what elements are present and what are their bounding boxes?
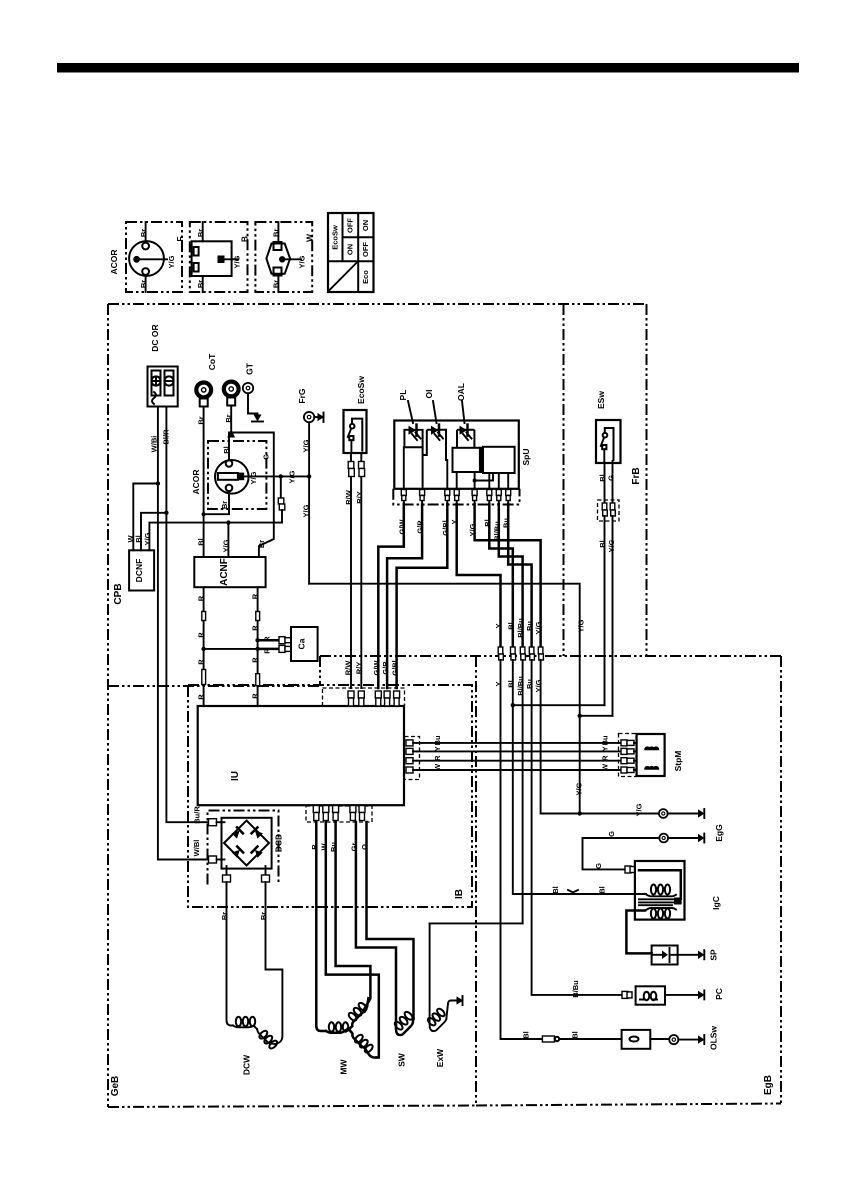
svg-text:Bl: Bl	[598, 886, 607, 894]
wire Bl bundle to ESw junction and IgC	[513, 660, 646, 894]
EcoSw wires R/W R/Y down to IU	[350, 453, 352, 688]
svg-text:Y/G: Y/G	[233, 255, 242, 268]
svg-text:Br: Br	[272, 229, 281, 237]
wire Y/G FrG down to long run	[308, 422, 310, 583]
svg-text:Bl: Bl	[506, 680, 515, 688]
svg-text:Y/G: Y/G	[222, 539, 231, 552]
svg-text:R: R	[251, 657, 260, 663]
svg-text:Bl: Bl	[598, 540, 607, 548]
wire Br bottom F	[145, 275, 147, 292]
GeB/EgB divider	[475, 656, 477, 1106]
svg-text:Y/G: Y/G	[167, 255, 176, 268]
FrB right boundary	[646, 304, 648, 656]
svg-text:R: R	[251, 625, 260, 631]
svg-text:Y/G: Y/G	[575, 782, 584, 795]
svg-text:Br: Br	[220, 912, 229, 920]
svg-text:DCD: DCD	[274, 834, 284, 852]
wire Bu bundle to PC	[532, 660, 622, 995]
wire Y/G from ACOR face to FrG line	[244, 475, 309, 477]
StpM connectors	[621, 740, 634, 773]
svg-text:DCW: DCW	[242, 1054, 252, 1075]
sub winding SW wire Gr	[356, 822, 398, 1035]
wire Bl/Bu bundle down to ExW link	[522, 660, 524, 923]
IgC primary winding	[639, 870, 681, 899]
LED PL	[409, 426, 417, 435]
svg-text:R: R	[251, 693, 260, 699]
SW coil	[398, 1019, 414, 1036]
svg-text:Bl: Bl	[551, 886, 560, 894]
svg-text:OFF: OFF	[346, 218, 355, 233]
ExW coil	[432, 1019, 447, 1031]
svg-text:MW: MW	[339, 1058, 349, 1074]
svg-text:Br: Br	[220, 501, 229, 509]
svg-text:FrB: FrB	[631, 467, 642, 484]
diagonal of blank cell	[329, 262, 357, 290]
indicator unit SpU	[394, 421, 519, 489]
CPB bottom jog	[319, 656, 321, 686]
MW wire Bu	[336, 822, 371, 1009]
svg-text:Bu: Bu	[601, 735, 610, 745]
svg-text:EgG: EgG	[714, 824, 724, 842]
EgB top boundary	[320, 655, 781, 657]
branch Y/G down through connector to DCNF run	[279, 474, 283, 478]
svg-text:Y/G: Y/G	[143, 532, 152, 545]
long Y/G run to engine block	[309, 584, 580, 716]
svg-text:CoT: CoT	[207, 353, 217, 370]
wire Bl/R from DC OR to DCD	[166, 407, 213, 823]
AC receptacle type W box	[255, 222, 312, 292]
EgB bottom boundary	[476, 1104, 781, 1106]
IB inverter block box	[188, 685, 472, 907]
ESw leads Bl and G	[605, 463, 613, 503]
svg-text:OAL: OAL	[456, 383, 466, 401]
DCW coil 2	[257, 1029, 275, 1044]
svg-text:PC: PC	[714, 988, 724, 1000]
svg-text:Br: Br	[259, 912, 268, 920]
wire G/R SpU to IU	[387, 504, 422, 688]
DCNF wire W	[133, 484, 158, 551]
svg-text:Br: Br	[272, 280, 281, 288]
receptacle B face	[192, 241, 232, 276]
svg-text:R: R	[197, 659, 206, 665]
IgC core	[639, 899, 681, 905]
wire Y bundle to OLSw	[501, 660, 544, 1039]
DC winding DCW wire Br	[227, 885, 234, 1026]
svg-text:GT: GT	[245, 362, 255, 375]
receptacle F face circle	[129, 241, 164, 276]
main winding MW wire R	[316, 822, 326, 1031]
wire Br top F	[145, 222, 147, 243]
svg-text:G: G	[607, 831, 616, 837]
svg-text:R: R	[263, 636, 272, 642]
svg-text:OI: OI	[424, 390, 434, 399]
DCNF wire Y/G long run right	[149, 523, 282, 551]
svg-text:Y/G: Y/G	[607, 539, 616, 552]
Bl connector on IgC wire	[568, 890, 578, 893]
DCW coil 1	[233, 1026, 257, 1030]
left outer boundary	[107, 304, 109, 1107]
wire Bl/Bu SpU to bundle	[499, 504, 523, 649]
svg-text:R/W: R/W	[344, 489, 353, 505]
wire R left ACNF to IU	[203, 587, 205, 706]
svg-text:PL: PL	[398, 390, 408, 401]
svg-text:Y/G: Y/G	[302, 439, 311, 452]
wire from ACOR bottom pin to CoT wire	[204, 491, 229, 514]
control terminal 2	[224, 382, 239, 397]
IU bottom connectors	[313, 806, 365, 821]
svg-text:Y: Y	[601, 746, 610, 751]
AC noise filter ACNF	[194, 557, 265, 587]
ACNF mid input Y/G	[227, 523, 229, 557]
MW wire W	[326, 822, 379, 1058]
svg-text:OLSw: OLSw	[709, 1026, 719, 1050]
svg-text:EcoSw: EcoSw	[331, 225, 340, 250]
SpU internal module 2	[483, 447, 515, 473]
svg-text:ACOR: ACOR	[191, 469, 201, 494]
R bus between the two R wires	[204, 648, 258, 650]
IU top connectors	[348, 691, 400, 706]
svg-text:FrG: FrG	[297, 388, 307, 404]
wire Br terminal2 down	[230, 406, 232, 433]
svg-text:Br: Br	[257, 540, 266, 548]
wire Br bottom W	[277, 276, 279, 293]
svg-text:ESw: ESw	[596, 391, 606, 409]
receptacle W face hexagon	[266, 244, 290, 274]
DC rectifier DCD chain box	[208, 811, 279, 885]
svg-text:G: G	[607, 475, 616, 481]
svg-text:R/W: R/W	[344, 660, 353, 676]
DCD input terminals	[209, 819, 217, 826]
svg-text:SW: SW	[397, 1052, 407, 1067]
svg-text:DCNF: DCNF	[134, 559, 144, 583]
ground contact dot and Y/G lead	[133, 256, 140, 263]
svg-text:G/R: G/R	[381, 661, 390, 675]
svg-text:R/Y: R/Y	[355, 662, 364, 675]
svg-text:Bl/R: Bl/R	[162, 429, 171, 445]
spark plug SP lead	[626, 911, 651, 954]
svg-text:Bl: Bl	[506, 622, 515, 630]
svg-text:Br: Br	[196, 229, 205, 237]
GeB bottom boundary	[108, 1106, 476, 1108]
svg-text:Bl: Bl	[522, 1031, 531, 1039]
svg-text:R: R	[197, 632, 206, 638]
svg-text:Bu/R: Bu/R	[193, 806, 202, 824]
svg-text:R: R	[251, 593, 260, 599]
svg-text:OFF: OFF	[361, 242, 370, 257]
svg-text:ON: ON	[361, 220, 370, 231]
svg-text:Bl: Bl	[196, 538, 205, 546]
svg-text:Br: Br	[139, 229, 148, 237]
FrB left boundary	[563, 304, 565, 656]
IU bottom connector chain box	[306, 806, 372, 822]
svg-text:Ca: Ca	[297, 638, 307, 649]
ExW ground lead	[446, 1001, 456, 1020]
DCD output terminals	[226, 866, 228, 875]
AC receptacle ACOR type F box	[126, 222, 182, 292]
MW coil 1	[326, 1029, 347, 1033]
svg-text:Bl: Bl	[222, 446, 231, 454]
wire from ACOR top pin up-around to ACNF	[229, 433, 274, 558]
svg-text:ExW: ExW	[435, 1048, 445, 1067]
stepping motor StpM	[637, 734, 665, 776]
svg-text:W: W	[305, 233, 315, 242]
stepping motor wires Bu Y R W	[417, 742, 621, 744]
svg-text:R: R	[601, 755, 610, 761]
svg-text:EgB: EgB	[763, 1075, 774, 1095]
MW junction	[347, 1027, 352, 1032]
svg-text:Bu: Bu	[525, 679, 534, 689]
svg-text:R: R	[197, 595, 206, 601]
svg-text:Bu: Bu	[433, 735, 442, 745]
Eco switch table	[328, 213, 374, 292]
svg-text:Y: Y	[433, 746, 442, 751]
IgC secondary winding	[645, 908, 676, 911]
svg-text:W/Bi: W/Bi	[150, 436, 159, 453]
svg-text:DC OR: DC OR	[150, 324, 160, 351]
svg-text:Y/G: Y/G	[635, 803, 644, 816]
IU right connectors	[406, 740, 417, 773]
wire G/W SpU to IU	[378, 504, 404, 688]
svg-text:Bl: Bl	[571, 1031, 580, 1039]
DCD diodes	[231, 827, 263, 858]
GT ground lead with arrow	[248, 393, 258, 414]
svg-text:SP: SP	[709, 949, 719, 961]
svg-text:W: W	[601, 763, 610, 771]
SW wire O	[367, 822, 414, 1019]
R branches to capacitor Ca	[255, 638, 259, 642]
svg-text:R/Y: R/Y	[355, 491, 364, 504]
svg-text:R: R	[433, 755, 442, 761]
DCW return wire Br	[266, 885, 283, 1045]
SpU connector chain box	[393, 489, 519, 505]
svg-text:R: R	[197, 694, 206, 700]
ignition coil IgC	[625, 866, 631, 873]
exciter winding ExW wire	[430, 923, 432, 1030]
wire Bl SpU to bundle	[489, 504, 513, 649]
svg-text:Y: Y	[494, 681, 503, 686]
svg-text:Br: Br	[196, 280, 205, 288]
SpU pin connectors	[401, 490, 510, 505]
svg-text:Y/G: Y/G	[298, 255, 307, 268]
svg-text:Y/G: Y/G	[577, 619, 586, 632]
MW coil 2 up-right	[349, 998, 369, 1029]
Y/G junction to ESw	[578, 714, 582, 718]
svg-text:SpU: SpU	[521, 449, 531, 466]
svg-text:Y/G: Y/G	[288, 470, 297, 483]
wire Br bottom B	[202, 276, 204, 292]
wire R right ACNF to IU	[257, 587, 259, 706]
wire Y SpU to bundle	[457, 504, 501, 649]
svg-text:ACOR: ACOR	[109, 249, 119, 274]
IU right connector chain box	[405, 737, 420, 780]
svg-text:Br: Br	[139, 280, 148, 288]
svg-text:Br: Br	[224, 414, 233, 422]
ESw inline connectors	[598, 500, 620, 521]
svg-text:Eco: Eco	[361, 270, 370, 284]
svg-text:IU: IU	[230, 771, 241, 781]
svg-text:IgC: IgC	[711, 896, 721, 910]
svg-text:F: F	[175, 236, 185, 241]
IU top connector chain box	[323, 688, 405, 706]
wire Y/G SpU to bundle	[475, 504, 541, 649]
svg-text:W: W	[433, 763, 442, 771]
svg-text:Y/G: Y/G	[249, 471, 258, 484]
ExW link wire to engine block	[430, 922, 523, 924]
LED OI	[431, 426, 439, 435]
svg-text:R: R	[263, 648, 272, 654]
DC rectifier DCD	[222, 818, 272, 869]
svg-text:Y: Y	[494, 623, 503, 628]
svg-text:ON: ON	[346, 244, 355, 255]
wire Y/G bundle to engine ground	[541, 660, 659, 814]
MW coil 3 down-right	[349, 1029, 377, 1057]
ESw Y/G wire down to junction	[612, 516, 614, 716]
stepping motor StpM connector chain box	[619, 734, 637, 777]
capacitor Ca	[291, 627, 318, 661]
svg-text:Bl/Bu: Bl/Bu	[516, 676, 525, 696]
svg-text:Bu: Bu	[525, 621, 534, 631]
SpU internal module 1	[453, 448, 480, 472]
wire G/Bl SpU to IU	[397, 504, 448, 688]
DC noise filter DCNF	[129, 550, 154, 590]
wire W/Bl from DC OR to DCD	[158, 407, 213, 860]
svg-text:EcoSw: EcoSw	[356, 376, 366, 404]
svg-text:W/Bl: W/Bl	[192, 840, 201, 857]
wire Br top W	[277, 222, 279, 242]
svg-text:Y/G: Y/G	[534, 679, 543, 692]
svg-text:Br: Br	[196, 416, 205, 424]
inverter unit IU	[198, 706, 404, 805]
svg-text:StpM: StpM	[673, 751, 683, 772]
svg-text:G: G	[262, 454, 271, 460]
svg-text:Y/G: Y/G	[302, 504, 311, 517]
spark plug SP	[652, 946, 678, 965]
svg-text:G/W: G/W	[372, 660, 381, 676]
svg-text:G/Bl: G/Bl	[390, 660, 399, 675]
svg-text:CPB: CPB	[113, 583, 124, 604]
CPB/FrB top boundary	[108, 303, 647, 305]
svg-text:ACNF: ACNF	[219, 558, 230, 586]
LED OAL	[460, 426, 468, 435]
svg-text:IB: IB	[454, 889, 465, 899]
svg-text:Bl/Bu: Bl/Bu	[516, 618, 525, 638]
bundle inline connectors	[498, 647, 543, 660]
AC receptacle type B box	[190, 222, 248, 292]
svg-text:Y/G: Y/G	[534, 621, 543, 634]
EgB right boundary	[780, 656, 782, 1104]
header bar	[57, 63, 799, 73]
svg-text:GeB: GeB	[110, 1076, 121, 1097]
engine ground EgG terminal 2	[583, 837, 660, 839]
svg-text:B: B	[240, 236, 250, 242]
DCNF wire Bl	[141, 513, 166, 551]
panel AC receptacle ACOR	[208, 441, 266, 509]
svg-text:B/Bu: B/Bu	[571, 980, 580, 998]
CPB bottom boundary	[108, 685, 320, 687]
svg-text:G: G	[594, 863, 603, 869]
wire Br CoT to ACNF	[203, 407, 205, 558]
wire Br top B	[202, 222, 204, 241]
wire Bu SpU to bundle	[508, 504, 531, 649]
ESw Bl wire down to junction	[604, 516, 606, 705]
